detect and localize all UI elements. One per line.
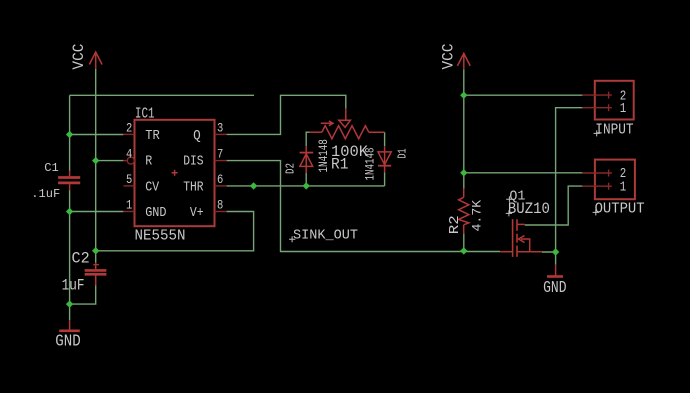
svg-text:VCC: VCC [439,44,457,70]
svg-text:R: R [145,154,152,170]
svg-text:7: 7 [217,147,223,162]
svg-text:IC1: IC1 [135,106,155,123]
svg-text:1: 1 [126,198,132,213]
svg-text:D2: D2 [285,163,298,174]
svg-text:V+: V+ [190,205,204,221]
svg-text:4.7K: 4.7K [470,200,485,232]
svg-text:Q: Q [193,128,201,144]
svg-text:4: 4 [126,147,132,162]
svg-text:BUZ10: BUZ10 [508,200,550,218]
svg-text:D1: D1 [397,148,410,158]
svg-text:6: 6 [217,172,223,187]
svg-text:2: 2 [126,121,132,136]
svg-text:GND: GND [145,205,166,221]
svg-text:NE555N: NE555N [135,228,186,245]
svg-text:INPUT: INPUT [595,121,633,138]
svg-text:1: 1 [620,102,627,117]
svg-text:5: 5 [126,172,132,187]
svg-text:THR: THR [183,179,204,195]
svg-text:3: 3 [217,121,223,136]
svg-text:DIS: DIS [183,154,203,170]
svg-text:8: 8 [217,198,223,213]
svg-text:C1: C1 [44,161,59,175]
svg-text:R2: R2 [448,215,463,234]
svg-text:1N4148: 1N4148 [364,148,378,181]
svg-text:1N4148: 1N4148 [317,139,331,172]
svg-text:OUTPUT: OUTPUT [595,200,645,217]
svg-text:R1: R1 [331,155,348,173]
svg-text:VCC: VCC [70,44,88,70]
svg-text:GND: GND [55,331,80,350]
svg-text:SINK_OUT: SINK_OUT [293,229,358,244]
svg-text:.1uF: .1uF [31,187,60,201]
svg-text:CV: CV [145,179,159,195]
svg-text:GND: GND [543,278,566,297]
svg-text:C2: C2 [72,249,90,267]
svg-text:TR: TR [145,128,160,144]
svg-text:1: 1 [620,180,627,195]
svg-text:1uF: 1uF [62,276,85,294]
